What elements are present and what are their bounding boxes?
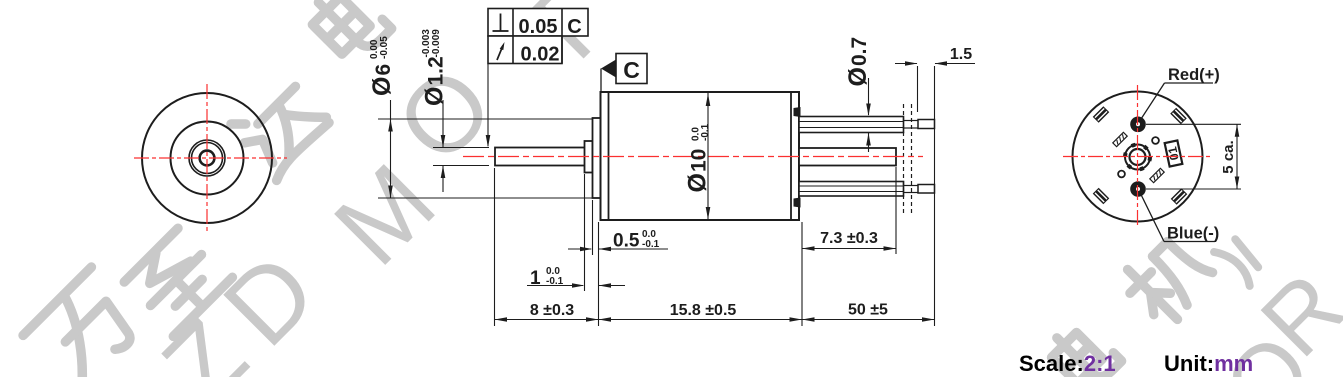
- red leader line: [1140, 83, 1165, 121]
- red terminal: [1130, 117, 1146, 133]
- bottom wire stub: [904, 185, 919, 187]
- FCF leader line: [487, 64, 489, 147]
- svg-text:0.05: 0.05: [519, 16, 558, 38]
- phi1.2 top extension line: [433, 147, 489, 149]
- phi0.7 dimension: [868, 78, 870, 152]
- front bearing boss: [593, 118, 601, 198]
- phi1.2 bottom extension line: [433, 165, 489, 167]
- bottom lead wire: [799, 182, 904, 197]
- svg-text:-0.009: -0.009: [431, 29, 442, 58]
- 50 left arrow: [802, 317, 815, 322]
- hatched slot top left: [1113, 132, 1127, 146]
- 1 right arrow: [599, 283, 612, 288]
- hub outer circle: [1125, 145, 1150, 170]
- svg-text:Red(+): Red(+): [1168, 66, 1220, 84]
- runout symbol: [497, 46, 503, 61]
- datum C leader: [600, 69, 602, 92]
- phi10 label: [684, 123, 712, 192]
- top wire tinned end: [918, 120, 935, 129]
- 0.5 left tail: [568, 248, 591, 250]
- svg-text:C: C: [567, 16, 581, 38]
- 0.5 dimension text: [613, 229, 660, 252]
- small hole bottom left: [1118, 171, 1125, 178]
- 1 left arrow: [572, 283, 585, 288]
- phi10 dimension: [707, 93, 709, 220]
- 50 right arrow: [922, 317, 935, 322]
- rear cap bottom crimp tab: [794, 198, 801, 208]
- datum C triangle: [601, 60, 616, 78]
- 7.3 dimension line: [802, 248, 896, 250]
- 1.5 left extension line: [917, 66, 919, 112]
- svg-text:Ø0.7: Ø0.7: [844, 37, 872, 87]
- phi1.2 lower arrow: [441, 166, 446, 179]
- bottom dimension line: [495, 319, 935, 321]
- 1.5 left arrow: [905, 61, 918, 66]
- runout symbol arrowhead: [500, 42, 505, 50]
- 0.5 left arrow: [580, 247, 593, 252]
- rear view horizontal centerline: [1063, 156, 1213, 158]
- shaft collar: [585, 141, 593, 173]
- side view centerline: [463, 156, 923, 158]
- 7.3 right arrow: [884, 246, 897, 251]
- 5ca dimension line: [1236, 124, 1238, 189]
- extension line body front: [598, 222, 600, 326]
- svg-text:Ø1.2: Ø1.2: [421, 56, 449, 106]
- blue terminal: [1130, 181, 1146, 197]
- phi0.7 lower arrow: [866, 133, 871, 146]
- extension line boss face: [592, 200, 594, 255]
- 1 left tail: [527, 285, 583, 287]
- 01 marking block: [1164, 140, 1183, 166]
- hub knurl marks: [1125, 145, 1150, 170]
- svg-text:Ø10: Ø10: [684, 149, 712, 193]
- extension line wire tip: [934, 66, 936, 326]
- left view horizontal centerline: [134, 157, 287, 159]
- rear view outer circle: [1073, 92, 1203, 222]
- phi1.2 upper arrow: [441, 135, 446, 148]
- body rear cap inner line: [790, 92, 792, 220]
- blue leader line: [1140, 193, 1164, 242]
- 15.8 left arrow: [599, 317, 612, 322]
- svg-text:1: 1: [530, 268, 541, 289]
- datum C box: [616, 54, 647, 84]
- shaft: [495, 148, 585, 166]
- 1 right tail: [599, 285, 625, 287]
- 5ca label: [1220, 140, 1237, 173]
- svg-text:Blue(-): Blue(-): [1167, 225, 1219, 243]
- svg-text:15.8 ±0.5: 15.8 ±0.5: [670, 302, 737, 319]
- 1.5 left tail: [895, 63, 917, 65]
- tab bottom right: [1171, 188, 1188, 205]
- rear cap top crimp tab: [794, 107, 801, 117]
- blue leader underline: [1164, 241, 1215, 243]
- 0.5 right arrow: [599, 247, 612, 252]
- 5ca top arrow: [1235, 124, 1240, 137]
- red leader underline: [1165, 82, 1214, 84]
- tab bottom left: [1093, 188, 1110, 205]
- svg-text:-0.1: -0.1: [642, 239, 660, 250]
- hatched slot bottom right: [1150, 168, 1164, 182]
- svg-text:0.5: 0.5: [613, 231, 640, 252]
- svg-text:Unit:mm: Unit:mm: [1164, 351, 1253, 376]
- motor body: [601, 92, 800, 220]
- svg-text:-0.1: -0.1: [546, 276, 564, 287]
- svg-text:-0.05: -0.05: [379, 36, 390, 59]
- 5ca top extension line: [1146, 123, 1241, 125]
- phi1.2 label: [421, 29, 449, 106]
- feature control frame: [488, 9, 588, 64]
- 1.5 right arrow: [935, 61, 948, 66]
- phi1.2 dimension: [442, 100, 444, 192]
- svg-text:50 ±5: 50 ±5: [848, 302, 888, 319]
- phi10 top arrow: [706, 94, 711, 107]
- left view vertical centerline: [206, 84, 208, 232]
- 8 left arrow: [495, 317, 508, 322]
- wire break dashed line right: [911, 104, 913, 213]
- svg-text:-0.1: -0.1: [700, 123, 711, 141]
- phi6 dimension: [390, 100, 392, 198]
- svg-text:C: C: [623, 57, 640, 83]
- top lead wire: [799, 117, 904, 133]
- phi6 label: [368, 36, 396, 96]
- rear view vertical centerline: [1137, 85, 1139, 228]
- perpendicularity symbol: [493, 14, 509, 32]
- extension line rear shaft end: [895, 167, 897, 254]
- phi10 bottom arrow: [706, 207, 711, 220]
- tab top left: [1093, 106, 1110, 123]
- 1 dimension text: [530, 266, 564, 289]
- svg-text:5 ca.: 5 ca.: [1220, 140, 1237, 173]
- wire break dashed line left: [903, 104, 905, 213]
- phi6 top extension line: [378, 118, 592, 120]
- svg-text:8 ±0.3: 8 ±0.3: [530, 302, 574, 319]
- phi6 bottom arrow: [388, 186, 393, 199]
- small hole top right: [1152, 137, 1159, 144]
- phi6 bottom extension line: [378, 197, 592, 199]
- svg-text:7.3 ±0.3: 7.3 ±0.3: [820, 230, 878, 247]
- rear shaft stub: [799, 148, 896, 166]
- hub inner circle: [1130, 149, 1146, 165]
- svg-text:1.5: 1.5: [950, 46, 972, 63]
- 5ca bottom arrow: [1235, 177, 1240, 190]
- watermark: [23, 267, 148, 377]
- body front cap inner line: [608, 92, 610, 220]
- phi0.7 upper arrow: [866, 104, 871, 117]
- 8 right arrow: [586, 317, 599, 322]
- extension line body rear: [801, 222, 803, 326]
- extension line shaft end: [494, 168, 496, 326]
- left view front: [142, 93, 272, 223]
- 15.8 right arrow: [790, 317, 803, 322]
- 0.5 right tail: [599, 248, 668, 250]
- phi0.7 label: [844, 37, 872, 87]
- top wire stub: [904, 120, 919, 122]
- phi6 top arrow: [388, 119, 393, 132]
- svg-text:Ø6: Ø6: [368, 64, 396, 96]
- FCF leader arrow: [486, 135, 491, 148]
- 1.5 right tail: [935, 63, 975, 65]
- bottom wire tinned end: [918, 185, 935, 194]
- 7.3 left arrow: [802, 246, 815, 251]
- svg-text:Scale:2:1: Scale:2:1: [1019, 351, 1116, 376]
- extension line collar face: [584, 174, 586, 291]
- tab top right: [1170, 108, 1187, 125]
- svg-text:0.02: 0.02: [521, 44, 560, 66]
- 5ca bottom extension line: [1146, 188, 1241, 190]
